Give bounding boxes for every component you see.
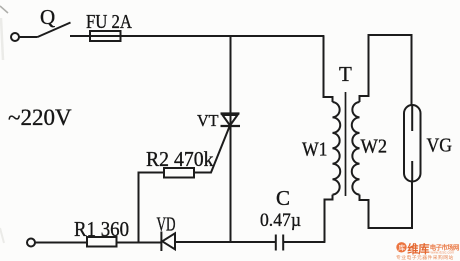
wire VT gate diagonal: [211, 127, 230, 173]
watermark text: [396, 242, 459, 261]
wire top: [121, 35, 325, 37]
thyristor VT: [221, 114, 241, 127]
svg-text:www.dzsc.com: www.dzsc.com: [431, 250, 455, 254]
wire VT anode branch: [230, 36, 232, 114]
svg-text:VG: VG: [427, 135, 453, 157]
svg-text:VT: VT: [197, 111, 219, 130]
svg-text:Q: Q: [40, 5, 55, 29]
svg-text:~220V: ~220V: [8, 105, 72, 130]
svg-text:维库: 维库: [407, 242, 430, 256]
winding W1: [333, 102, 341, 195]
switch Q terminal circle: [11, 33, 19, 41]
wire: [35, 242, 88, 244]
svg-text:C: C: [276, 186, 290, 210]
svg-text:R1 360: R1 360: [74, 217, 129, 241]
svg-text:R2 470k: R2 470k: [146, 147, 214, 171]
wire: [70, 35, 91, 37]
wire VT cathode down: [230, 126, 232, 243]
wire W2 bottom lead: [360, 181, 413, 228]
svg-text:0.47µ: 0.47µ: [260, 210, 301, 231]
scan smudge top-left: [0, 6, 8, 13]
wire R2 right: [194, 172, 212, 174]
lamp VG envelope: [404, 105, 421, 182]
svg-text:W1: W1: [302, 139, 328, 161]
wire W2 top lead: [360, 35, 412, 106]
wire: [19, 36, 37, 38]
watermark logo: [396, 242, 406, 252]
wire: [283, 241, 325, 243]
lamp VG bottom electrode: [411, 161, 413, 182]
wire: [175, 241, 276, 243]
svg-text:专业电子元器件采购网站: 专业电子元器件采购网站: [396, 254, 454, 261]
svg-text:库: 库: [398, 243, 405, 252]
resistor R1: [87, 237, 117, 247]
wire R2 left: [139, 173, 165, 243]
switch Q arm: [38, 23, 71, 38]
svg-text:FU 2A: FU 2A: [86, 12, 132, 33]
winding W2: [352, 102, 360, 195]
resistor R2: [164, 168, 194, 178]
wire W1 top lead: [324, 36, 333, 102]
wire: [117, 242, 161, 244]
bottom terminal circle: [27, 239, 35, 247]
lamp VG top electrode: [411, 105, 413, 131]
wire W1 bottom lead: [325, 195, 333, 242]
diode VD: [161, 232, 175, 252]
fuse FU: [90, 31, 121, 41]
svg-text:VD: VD: [157, 214, 176, 236]
svg-text:T: T: [339, 62, 352, 86]
svg-text:W2: W2: [361, 136, 388, 158]
transformer core: [345, 92, 347, 196]
capacitor C: [276, 235, 283, 251]
